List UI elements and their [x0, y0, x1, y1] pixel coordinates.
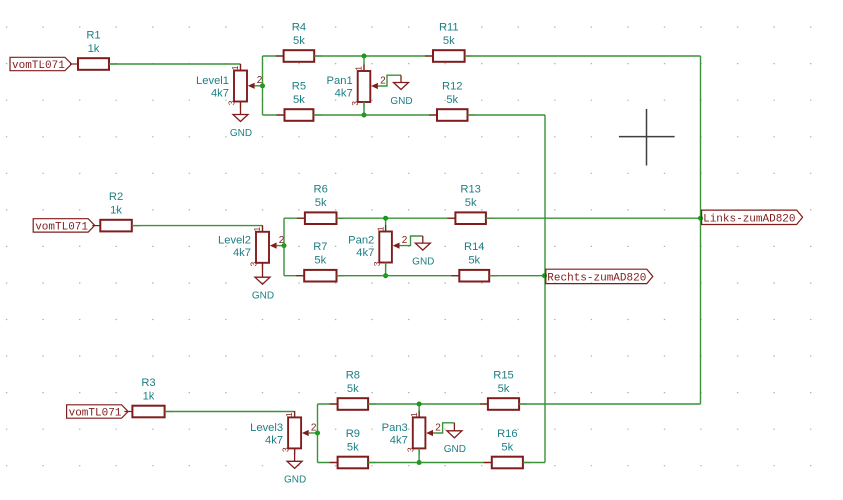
svg-text:5k: 5k [315, 197, 327, 209]
svg-text:3: 3 [350, 101, 360, 106]
wire R6 to R13 [337, 217, 456, 219]
svg-text:Pan1: Pan1 [327, 75, 353, 87]
resistor R7 [296, 241, 344, 281]
potentiometer Pan3 [382, 411, 433, 455]
wire R3 to Level3 [165, 411, 295, 413]
svg-text:Pan3: Pan3 [382, 422, 408, 434]
junction Links label node [698, 216, 703, 221]
resistor R12 [429, 81, 476, 121]
global label vomTL071 [33, 219, 94, 234]
svg-text:4k7: 4k7 [233, 247, 251, 259]
svg-text:1: 1 [354, 66, 364, 71]
wire down to Level3 pin 1 [294, 412, 296, 418]
junction Pan1 top [362, 54, 367, 59]
svg-text:Rechts-zumAD820: Rechts-zumAD820 [547, 273, 646, 285]
svg-text:3: 3 [405, 447, 415, 452]
wire down to Pan3 pin 1 [418, 404, 420, 417]
wire Level2 pin 2 to node [277, 245, 284, 247]
svg-text:5k: 5k [443, 35, 455, 47]
resistor R2 [92, 191, 140, 231]
wire R14 to Rechts label [489, 275, 545, 277]
wire Pan2 pin 3 to bottom [385, 262, 387, 275]
resistor R1 [70, 30, 117, 70]
junction Pan2 bottom [383, 273, 388, 278]
svg-text:R9: R9 [346, 428, 360, 440]
svg-text:GND: GND [444, 444, 466, 455]
svg-text:R6: R6 [314, 184, 328, 196]
svg-text:4k7: 4k7 [356, 247, 374, 259]
resistor R5 [277, 81, 322, 121]
svg-text:1k: 1k [110, 205, 122, 217]
wire to R7 [284, 275, 304, 277]
svg-text:Pan2: Pan2 [348, 235, 374, 247]
junction Level1 wiper node [260, 83, 265, 88]
svg-text:5k: 5k [468, 255, 480, 267]
svg-text:5k: 5k [446, 94, 458, 106]
junction Pan3 bottom [417, 460, 422, 465]
svg-text:1k: 1k [88, 43, 100, 55]
svg-text:1: 1 [284, 412, 294, 417]
wire R15 to Links bus corner [519, 403, 700, 405]
wire Level1 pin 3 [240, 102, 242, 115]
svg-text:5k: 5k [314, 255, 326, 267]
svg-text:2: 2 [435, 422, 441, 433]
global label vomTL071 [10, 57, 72, 72]
wire rail channel1 [262, 56, 264, 115]
wire to R5 [263, 114, 285, 116]
svg-text:vomTL071: vomTL071 [69, 408, 122, 420]
svg-text:4k7: 4k7 [335, 88, 353, 100]
wire R12 to Rechts bus [468, 114, 546, 116]
ground GND (Level3) [284, 461, 306, 485]
svg-text:3: 3 [227, 100, 237, 105]
wire R5 to R12 [313, 114, 437, 116]
wire R8 to R15 [368, 403, 488, 405]
wire R9 to R16 [368, 462, 492, 464]
global label vomTL071 [67, 405, 129, 420]
wire Level1 pin 2 to node [255, 85, 263, 87]
svg-text:1k: 1k [143, 391, 155, 403]
resistor R11 [425, 22, 473, 62]
wire to R6 [284, 217, 305, 219]
svg-text:3: 3 [372, 261, 382, 266]
svg-text:3: 3 [249, 262, 259, 267]
svg-text:5k: 5k [501, 442, 513, 454]
wire Pan1 pin 3 to bottom [363, 102, 365, 115]
wire down to Pan2 pin 1 [385, 218, 387, 231]
svg-text:GND: GND [230, 128, 252, 139]
svg-text:R15: R15 [493, 370, 514, 382]
resistor R14 [451, 241, 497, 281]
svg-text:R7: R7 [313, 241, 327, 253]
svg-text:Level3: Level3 [250, 422, 283, 434]
svg-text:GND: GND [390, 96, 412, 107]
svg-text:5k: 5k [293, 94, 305, 106]
potentiometer Pan2 [348, 225, 399, 269]
svg-text:1: 1 [230, 65, 240, 70]
resistor R15 [480, 370, 527, 410]
wire Pan3 pin 3 to bottom [418, 448, 420, 462]
svg-text:1: 1 [375, 226, 385, 231]
wire R16 to Rechts bus corner [523, 462, 545, 464]
wire Pan2 pin 2 to ground [400, 236, 423, 246]
resistor R3 [124, 377, 172, 417]
wire down to Pan1 pin 1 [363, 56, 365, 71]
crosshair cursor [619, 109, 675, 166]
svg-text:5k: 5k [293, 35, 305, 47]
wire R2 to Level2 [132, 225, 263, 227]
ground GND (Pan3) [444, 423, 466, 455]
wire R11 to Links bus [465, 55, 701, 57]
svg-text:R8: R8 [346, 370, 360, 382]
global label Rechts-zumAD820 [546, 269, 653, 284]
wire down to Level2 pin 1 [262, 226, 264, 232]
wire R7 to R14 [337, 275, 460, 277]
resistor R9 [330, 428, 377, 468]
ground GND (Level2) [252, 277, 274, 301]
svg-text:GND: GND [252, 291, 274, 302]
ground GND (Level1) [230, 115, 252, 139]
svg-text:4k7: 4k7 [265, 435, 283, 447]
potentiometer Pan1 [327, 65, 378, 109]
svg-text:2: 2 [380, 75, 386, 86]
wire down to Level1 pin 1 [240, 64, 242, 71]
junction Pan3 top [417, 402, 422, 407]
resistor R13 [447, 184, 494, 224]
wire Pan1 pin 2 to ground [378, 75, 401, 86]
svg-text:1: 1 [252, 227, 262, 232]
svg-text:R3: R3 [141, 377, 155, 389]
wire Level2 pin 3 [262, 263, 264, 277]
svg-text:GND: GND [284, 475, 306, 486]
wire to R4 [263, 55, 284, 57]
wire R1 to Level1 [109, 63, 241, 65]
resistor R4 [276, 22, 323, 62]
wire Level3 pin 3 [294, 448, 296, 461]
resistor R16 [484, 428, 531, 468]
svg-text:5k: 5k [498, 383, 510, 395]
svg-text:R5: R5 [292, 81, 306, 93]
potentiometer Level2 [218, 225, 277, 269]
ground GND (Pan2) [412, 236, 434, 267]
resistor R6 [297, 184, 345, 224]
svg-text:4k7: 4k7 [390, 435, 408, 447]
junction Pan2 top [383, 216, 388, 221]
junction Pan1 bottom [362, 113, 367, 118]
junction Level3 wiper node [315, 431, 320, 436]
wire R13 to Links bus [486, 217, 701, 219]
svg-text:3: 3 [281, 447, 291, 452]
ground GND (Pan1) [390, 75, 412, 107]
svg-text:Level1: Level1 [196, 75, 229, 87]
svg-text:vomTL071: vomTL071 [35, 221, 88, 233]
junction Level2 wiper node [282, 243, 287, 248]
wire to R9 [318, 462, 338, 464]
svg-text:5k: 5k [465, 197, 477, 209]
resistor R8 [330, 370, 377, 410]
potentiometer Level3 [250, 411, 309, 455]
svg-text:R16: R16 [497, 428, 518, 440]
svg-text:1: 1 [409, 412, 419, 417]
svg-text:4k7: 4k7 [211, 87, 229, 99]
wire rail channel3 [317, 404, 319, 463]
svg-text:5k: 5k [347, 383, 359, 395]
svg-text:Level2: Level2 [218, 235, 251, 247]
wire Rechts bus vertical [544, 115, 546, 463]
svg-text:vomTL071: vomTL071 [12, 60, 65, 72]
svg-text:R14: R14 [464, 241, 485, 253]
svg-text:R2: R2 [109, 191, 123, 203]
global label Links-zumAD820 [702, 210, 803, 225]
junction Rechts label node [542, 273, 547, 278]
svg-text:Links-zumAD820: Links-zumAD820 [703, 213, 795, 225]
wire Level3 pin 2 to node [309, 432, 318, 434]
svg-text:R4: R4 [292, 22, 306, 34]
wire to R8 [318, 403, 338, 405]
svg-text:R13: R13 [460, 184, 481, 196]
svg-text:R12: R12 [442, 81, 463, 93]
svg-text:R11: R11 [439, 22, 459, 34]
wire rail channel2 [283, 218, 285, 276]
wire Links bus vertical [700, 56, 702, 404]
svg-text:GND: GND [412, 256, 434, 267]
wire R4 to R11 [314, 55, 433, 57]
svg-text:R1: R1 [86, 30, 100, 42]
potentiometer Level1 [196, 64, 255, 108]
wire Pan3 pin 2 to ground [433, 423, 454, 433]
svg-text:2: 2 [402, 235, 408, 246]
svg-text:5k: 5k [347, 442, 359, 454]
